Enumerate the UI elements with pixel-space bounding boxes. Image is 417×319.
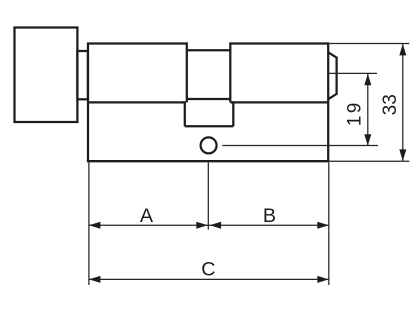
body top edge right section	[230, 42, 328, 44]
arrow C right	[317, 276, 329, 283]
cam ring bottom edge	[187, 98, 231, 100]
right barrel left edge	[229, 42, 231, 102]
profile band top left segment	[88, 101, 185, 103]
arrow B left	[210, 222, 222, 229]
cam tip chamfered end	[328, 52, 336, 99]
left barrel right edge	[186, 42, 188, 102]
thumbturn knob	[15, 28, 78, 123]
extension line middle	[207, 162, 209, 229]
extension line right	[328, 162, 330, 285]
arrow A left	[89, 222, 101, 229]
dim line 33	[402, 44, 404, 161]
svg-text:33: 33	[380, 94, 401, 115]
leader line body top to 33 dim	[328, 43, 409, 45]
knob neck	[77, 51, 88, 99]
arrow 33 up	[399, 44, 406, 56]
fixing screw hole	[201, 137, 217, 153]
profile band top right segment	[230, 101, 328, 103]
extension line left	[88, 162, 90, 285]
cam ring top edge	[187, 49, 231, 51]
profile band bottom edge	[87, 160, 329, 162]
arrow B right	[317, 222, 329, 229]
arrow C left	[89, 276, 101, 283]
svg-text:C: C	[201, 259, 215, 281]
cam lobe left edge	[184, 101, 186, 126]
dim line C	[89, 278, 329, 280]
arrow 33 down	[399, 149, 406, 161]
cylinder body left edge	[87, 44, 89, 162]
dim line A B	[89, 224, 329, 226]
body right edge	[327, 42, 329, 161]
arrow A right	[196, 222, 208, 229]
body top edge left section	[87, 42, 187, 44]
cam lobe right edge	[232, 101, 234, 126]
cam lobe bottom edge	[185, 125, 234, 127]
svg-text:B: B	[263, 205, 276, 227]
dim line 19	[367, 74, 369, 146]
svg-text:A: A	[140, 205, 154, 227]
arrow 19 up	[364, 74, 371, 86]
arrow 19 down	[364, 134, 371, 146]
leader line tip axis to 19 dim	[328, 72, 377, 74]
svg-text:19: 19	[345, 100, 366, 126]
leader line screw hole to 19 dim	[222, 145, 378, 147]
leader line band bottom to 33 dim	[329, 160, 409, 162]
